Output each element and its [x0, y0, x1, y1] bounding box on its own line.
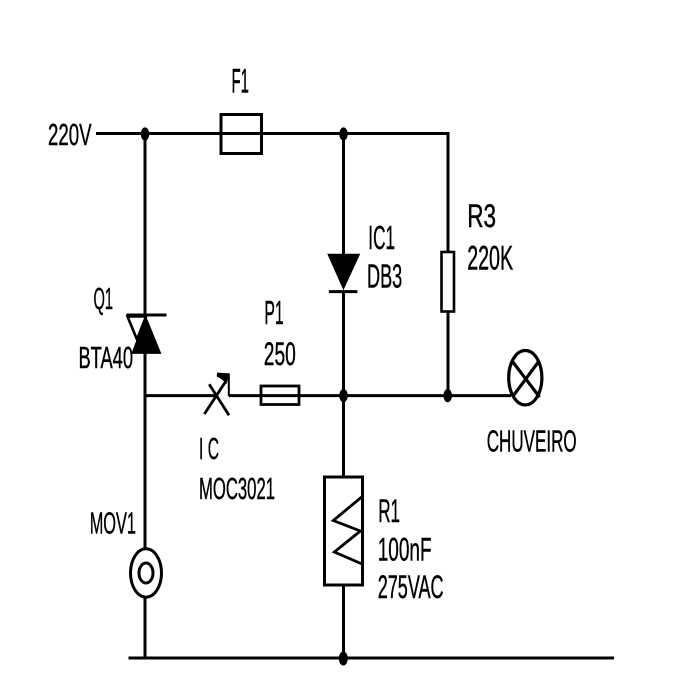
svg-text:CHUVEIRO: CHUVEIRO [487, 424, 577, 459]
wire: R3 vertical lower (R3 down to middle wire) [447, 312, 450, 397]
wire: bottom rail [129, 657, 615, 660]
capacitor R1 zigzag [333, 496, 363, 565]
svg-text:I C: I C [199, 431, 219, 466]
node: junction dot middle-center [339, 389, 348, 402]
varistor MOV1 outer circle [131, 549, 162, 597]
diac IC1 cathode bar [329, 290, 358, 293]
wire: left vertical bottom (MOV1 to bottom rail) [144, 597, 147, 658]
capacitor R1 body box [325, 477, 363, 585]
lamp CHUVEIRO X line 1 [512, 361, 539, 397]
triac Q1 top bar [127, 314, 167, 317]
svg-text:250: 250 [264, 336, 296, 372]
wire: center vertical upper (top wire to diac) [342, 134, 345, 257]
svg-text:BTA40: BTA40 [79, 340, 134, 375]
svg-text:275VAC: 275VAC [378, 569, 444, 605]
node: junction dot top-left (left branch) [141, 127, 150, 140]
lamp CHUVEIRO circle [509, 351, 542, 405]
svg-text:P1: P1 [264, 295, 283, 332]
svg-text:DB3: DB3 [367, 258, 402, 295]
wire: left vertical lower (triac to MOV1) [144, 353, 147, 548]
node: junction dot middle-right [443, 389, 452, 402]
wire: center vertical lower (R1 to bottom rail) [342, 585, 345, 658]
node: junction dot bottom rail [339, 652, 348, 666]
lamp CHUVEIRO X line 2 [513, 361, 539, 397]
svg-text:Q1: Q1 [94, 281, 114, 316]
wire: center vertical middle (diac to R1) [342, 292, 345, 477]
wire: middle horizontal left (triac to opto X) [145, 394, 218, 397]
diac IC1 filled triangle [328, 254, 360, 289]
svg-text:220V: 220V [48, 117, 92, 152]
opto-driver IC arrow shaft [204, 381, 226, 415]
opto-driver IC X stroke [209, 384, 229, 415]
wire: left vertical upper (top wire to triac) [144, 134, 147, 317]
varistor MOV1 inner circle [139, 563, 153, 583]
opto-driver IC arrow stub to wire [228, 374, 230, 396]
wire: middle horizontal right (X to lamp) [229, 394, 511, 397]
triac Q1 filled triangle [132, 317, 161, 354]
svg-text:R3: R3 [467, 198, 496, 234]
svg-text:IC1: IC1 [368, 220, 395, 257]
svg-text:220K: 220K [467, 240, 513, 278]
triac Q1 outline triangle [128, 317, 147, 340]
wire: R3 vertical upper (top corner down to R3) [447, 132, 450, 253]
wire: top horizontal from 220V to right corner [96, 132, 448, 135]
svg-text:R1: R1 [378, 493, 400, 529]
svg-text:MOC3021: MOC3021 [199, 471, 275, 506]
fuse F1 body [221, 115, 262, 154]
node: junction dot top-center (diac branch) [339, 127, 348, 140]
resistor R3 body [442, 252, 455, 312]
opto-driver IC arrowhead [217, 373, 230, 385]
resistor P1 body [261, 386, 299, 405]
svg-text:F1: F1 [232, 63, 250, 101]
svg-text:100nF: 100nF [378, 532, 432, 568]
svg-text:MOV1: MOV1 [90, 506, 136, 541]
